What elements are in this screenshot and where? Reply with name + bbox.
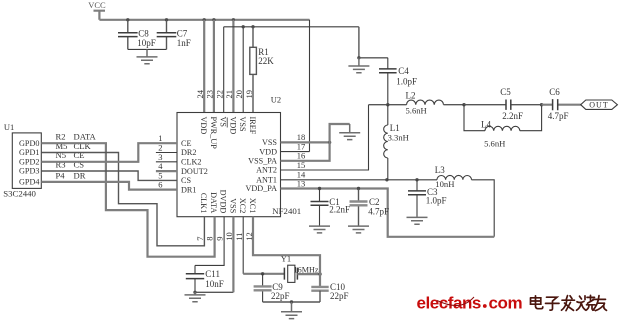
wire VSS rail drop [358, 27, 360, 58]
svg-text:VDD_PA: VDD_PA [245, 184, 277, 193]
capacitor C1 [319, 189, 321, 226]
svg-text:11: 11 [234, 233, 244, 241]
svg-text:CLK1: CLK1 [199, 193, 208, 213]
svg-text:2.2nF: 2.2nF [329, 204, 350, 214]
svg-text:22pF: 22pF [330, 291, 349, 301]
svg-text:9: 9 [215, 237, 225, 241]
svg-text:L4: L4 [481, 120, 491, 130]
svg-text:NF2401: NF2401 [272, 206, 301, 216]
svg-text:VDD: VDD [228, 117, 237, 135]
svg-text:4.7pF: 4.7pF [368, 207, 389, 217]
ground under C3 [407, 217, 428, 224]
svg-text:C6: C6 [549, 87, 560, 97]
svg-text:20: 20 [234, 90, 244, 99]
ground top right [348, 58, 369, 73]
wire pin 11 XC2 drop [242, 217, 244, 274]
svg-text:22: 22 [215, 90, 225, 99]
svg-text:GPD1: GPD1 [19, 148, 39, 157]
svg-text:19: 19 [244, 90, 254, 99]
svg-text:elecfans: elecfans [417, 294, 481, 313]
svg-text:XC2: XC2 [238, 198, 247, 213]
junction pin 21 tap [232, 18, 235, 21]
svg-text:L3: L3 [435, 165, 445, 175]
wire pin 22 VSS feed [223, 27, 225, 113]
wire pin 15 ANT2 to RF rail [281, 105, 369, 170]
wire C11 ground to pin 10 [195, 291, 233, 293]
junction C3 tap [415, 178, 418, 181]
svg-text:1.0pF: 1.0pF [396, 76, 417, 86]
svg-text:VCC: VCC [88, 0, 106, 10]
svg-text:XC1: XC1 [248, 198, 257, 213]
svg-text:VDD: VDD [259, 147, 277, 156]
svg-text:DVDD: DVDD [219, 190, 228, 214]
inductor L2 coil [407, 100, 444, 105]
port OUT [581, 100, 618, 110]
junction C7 tap [165, 18, 168, 21]
svg-text:DATA: DATA [209, 192, 218, 213]
wire pin 16 VSS_PA to ground [281, 124, 350, 161]
svg-text:4.7pF: 4.7pF [548, 111, 569, 121]
wire L3 to VDD_PA loop [472, 180, 495, 237]
wire VCC rail [99, 19, 309, 21]
svg-text:DOUT2: DOUT2 [181, 167, 208, 176]
svg-text:ANT1: ANT1 [256, 176, 277, 185]
svg-text:24: 24 [195, 89, 205, 98]
junction VSS ground node [357, 56, 360, 59]
wire RF rail left [369, 104, 407, 106]
svg-text:GPD4: GPD4 [19, 178, 39, 187]
IC U1 S3C2440 body [12, 133, 41, 189]
watermark chinese characters [531, 295, 607, 310]
capacitor C6 [542, 104, 581, 106]
resistor R1 22K [250, 27, 257, 113]
node ANT1 wire pin 14 [281, 179, 438, 181]
svg-text:VDD: VDD [199, 117, 208, 135]
wire XC2 to crystal [243, 273, 284, 275]
svg-text:C4: C4 [398, 66, 409, 76]
capacitor C2 [358, 189, 360, 226]
junction L1 bottom [385, 178, 388, 181]
junction L4 C6 node [540, 103, 543, 106]
svg-text:VSS: VSS [228, 198, 237, 213]
svg-text:S3C2440: S3C2440 [3, 189, 36, 199]
svg-text:8: 8 [205, 237, 215, 241]
svg-text:CLK2: CLK2 [181, 158, 201, 167]
svg-text:VS: VS [219, 117, 228, 128]
ground under C11 [185, 292, 206, 301]
svg-text:23: 23 [205, 90, 215, 99]
svg-text:L2: L2 [406, 90, 416, 100]
IC U2 nRF2401 body [177, 113, 281, 217]
power symbol VCC [88, 0, 106, 20]
wire to C4 [359, 57, 388, 59]
wire CLK GPD1 to pin 7 [41, 153, 204, 246]
junction XC1 node [318, 272, 321, 275]
wire pin 24 VDD feed [203, 20, 205, 113]
svg-text:C5: C5 [500, 87, 511, 97]
svg-text:ANT2: ANT2 [256, 166, 277, 175]
capacitor C10 [311, 287, 328, 291]
wire pin 4 DOUT2 stub [156, 170, 177, 172]
capacitor C9 [262, 274, 264, 302]
capacitor C5 [464, 104, 542, 106]
watermark elecfans.com [417, 294, 523, 313]
svg-text:7: 7 [195, 237, 205, 241]
ground right of chip [339, 124, 360, 140]
svg-text:DR: DR [74, 170, 86, 180]
wire pin 10 VSS drop [232, 217, 234, 293]
wire pin 17 VDD [281, 151, 310, 153]
svg-text:CS: CS [181, 176, 191, 185]
svg-text:P4: P4 [56, 170, 66, 180]
ground under C1 [309, 226, 330, 233]
svg-text:DR1: DR1 [181, 185, 196, 194]
ground under crystal caps [281, 302, 302, 319]
junction VSS pins [328, 141, 331, 144]
junction R1 on VSS rail [251, 25, 254, 28]
svg-text:IREF: IREF [248, 117, 257, 135]
svg-text:21: 21 [224, 90, 234, 99]
svg-text:22pF: 22pF [271, 291, 290, 301]
svg-text:U1: U1 [4, 122, 14, 132]
wire C8 C7 common [128, 48, 167, 50]
junction pin 20 on VSS rail [242, 25, 245, 28]
svg-text:DR2: DR2 [181, 148, 196, 157]
svg-text:GPD3: GPD3 [19, 167, 39, 176]
svg-text:C2: C2 [369, 197, 380, 207]
wire CE GPD2 to pin 1 [41, 143, 177, 162]
svg-text:16MHz: 16MHz [294, 265, 319, 274]
svg-text:C11: C11 [205, 269, 220, 279]
inductor L4 branch [464, 105, 542, 131]
overline on VS pin 22 [226, 118, 228, 128]
junction L4 C5 left node [462, 103, 465, 106]
wire pin 18 VSS [281, 141, 330, 143]
svg-text:com: com [489, 294, 523, 313]
svg-text:1.0pF: 1.0pF [426, 196, 447, 206]
junction C9 tap [261, 272, 264, 275]
wire VSS rail [224, 26, 359, 28]
svg-text:5.6nH: 5.6nH [484, 139, 505, 149]
wire VCC to pin 17 [309, 20, 311, 152]
junction C2 tap [357, 187, 360, 190]
capacitor C3 [416, 180, 418, 217]
svg-text:VSS_PA: VSS_PA [248, 157, 277, 166]
wire CS GPD3 to pin 5 [41, 171, 177, 180]
wire pin 2 DR2 stub [156, 152, 177, 154]
junction C11 ground node [193, 291, 196, 294]
wire pin 3 CLK2 stub [156, 161, 177, 163]
svg-text:GPD0: GPD0 [19, 139, 39, 148]
capacitor C11 [194, 265, 196, 292]
wire crystal to XC1 node [297, 273, 320, 275]
svg-text:VSS: VSS [262, 138, 277, 147]
ground under C8 C7 [137, 49, 158, 63]
wire pin 12 XC1 route [253, 217, 320, 287]
wire pin 9 DVDD to C11 [195, 217, 224, 266]
svg-text:CE: CE [181, 139, 191, 148]
svg-text:5.6nH: 5.6nH [406, 105, 427, 115]
capacitor C4 [387, 58, 389, 105]
wire L2 to node [444, 104, 465, 106]
capacitor C8 [127, 20, 129, 50]
junction C4 L1 node [386, 103, 389, 106]
svg-text:10nH: 10nH [435, 179, 454, 189]
junction C1 tap [318, 187, 321, 190]
crystal Y1 [284, 265, 297, 282]
wire pin 23 PWR_UP feed [213, 20, 215, 113]
svg-text:U2: U2 [271, 94, 281, 104]
svg-text:1nF: 1nF [177, 38, 191, 48]
svg-text:VSS: VSS [238, 117, 247, 132]
junction crystal ground node [290, 300, 293, 303]
wire pin 13 VDD_PA feed [281, 189, 495, 237]
svg-text:22K: 22K [258, 56, 274, 66]
wire DR GPD4 to pin 6 [41, 182, 177, 190]
svg-text:3.3nH: 3.3nH [388, 133, 409, 143]
wire crystal caps common [263, 301, 320, 303]
svg-text:PWR_UP: PWR_UP [209, 117, 218, 150]
inductor L1 vertical [387, 105, 389, 125]
junction pin 23 tap [212, 18, 215, 21]
svg-text:6: 6 [158, 180, 162, 190]
ground under C2 [348, 226, 369, 233]
wire pin 20 VSS feed [242, 27, 244, 113]
junction pin 24 tap [203, 18, 206, 21]
wire pin 21 VDD feed [232, 20, 234, 113]
svg-text:GPD2: GPD2 [19, 158, 39, 167]
svg-text:2.2nF: 2.2nF [502, 111, 523, 121]
svg-text:10pF: 10pF [137, 38, 156, 48]
inductor L3 coil [437, 175, 472, 179]
wire DATA GPD0 to pin 8 [41, 143, 214, 257]
svg-text:OUT: OUT [589, 101, 608, 110]
junction C8 tap [126, 18, 129, 21]
capacitor C7 [166, 20, 168, 50]
svg-text:10nF: 10nF [205, 279, 224, 289]
svg-text:L1: L1 [390, 123, 400, 133]
